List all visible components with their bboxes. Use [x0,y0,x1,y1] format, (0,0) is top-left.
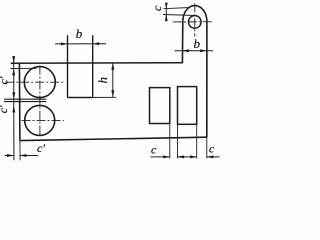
svg-text:c: c [150,5,164,11]
ext line plate right below [206,137,208,158]
plate right edge [206,21,208,137]
left vertical dimension line [13,56,15,160]
dim line b lug [175,50,214,52]
slot right edge [92,35,94,97]
nut rectangle 1 [150,88,170,124]
lug hole [189,16,202,29]
arrow right at rect2 right (c right) [190,155,197,158]
arrow down at top edge (c' upper) [12,56,15,63]
ext line rect2 right [196,124,198,158]
arrow right at slot left (b top) [61,42,68,45]
arrow left at rect2 left (c left) [178,155,185,158]
ext line rect2 left [177,124,179,158]
arrow right at lug right edge (b lug) [200,49,207,52]
ext line lug hole top [163,15,196,16]
arrow up at circle2 top (c' lower) [12,106,15,113]
ext line h bottom [93,96,117,98]
dim line h [112,63,114,97]
lug left edge [181,21,183,63]
arrow left (c' bottom outside-right) [20,154,27,157]
arrow up at circle1 top (c' upper) [12,69,15,76]
label c' left upper [0,76,11,84]
dim line c lug [165,3,167,22]
thin strip lower line [4,101,46,103]
lug hole horizontal centerline [173,21,214,23]
svg-text:b: b [194,36,201,51]
arrow down at slot bottom (h) [111,90,114,97]
thin strip upper line [4,98,46,100]
label h [95,77,110,84]
left edge extension below corner [19,141,21,161]
hole circle 2 [25,105,55,135]
dim line c bottom seg2 [178,156,197,158]
arrow right at rect1 right (c left) [163,155,170,158]
arrow left at slot right (b top) [93,42,100,45]
svg-text:c: c [151,143,157,157]
dim line c' bottom left seg2 [20,155,38,157]
svg-text:c: c [209,141,215,155]
arrow down at strip (c' lower) [12,92,15,99]
ext line lug arc top [164,8,191,9]
nut rectangle 2 [178,87,197,125]
arrow up at top edge (h) [111,63,114,70]
lug hole vertical centerline [194,3,196,36]
plate top edge [11,62,183,65]
label c' left lower [0,105,10,113]
circles vertical centerline [39,66,41,137]
lug rounded top arc [183,6,207,22]
arrow up at lug hole top (c) [165,15,168,21]
arrow down at lug arc top (c) [165,3,168,9]
circle 1 horizontal centerline [5,81,63,83]
slot left edge [67,35,69,97]
plate bottom edge [20,137,207,140]
svg-text:b: b [76,26,83,41]
arrow left at lug left edge (b lug) [182,49,189,52]
hole circle 1 [24,67,55,98]
svg-text:c′: c′ [0,105,10,113]
svg-text:c′: c′ [37,141,45,155]
arrow right (c' bottom outside-left) [7,154,14,157]
dim line c bottom seg3 [207,156,220,158]
ext line at circle1 top [11,67,37,69]
dim line c bottom seg1 [151,156,170,158]
ext line rect1 right [169,124,171,159]
dim line c' bottom left seg1 [5,155,14,157]
dim line b top [55,43,106,45]
circle 2 horizontal centerline [22,119,64,121]
plate left edge [18,63,21,141]
svg-text:c′: c′ [0,76,11,84]
svg-text:h: h [95,77,110,84]
arrow left at plate right (c right) [207,155,214,158]
slot bottom edge [68,97,93,99]
label c lug [150,5,164,11]
